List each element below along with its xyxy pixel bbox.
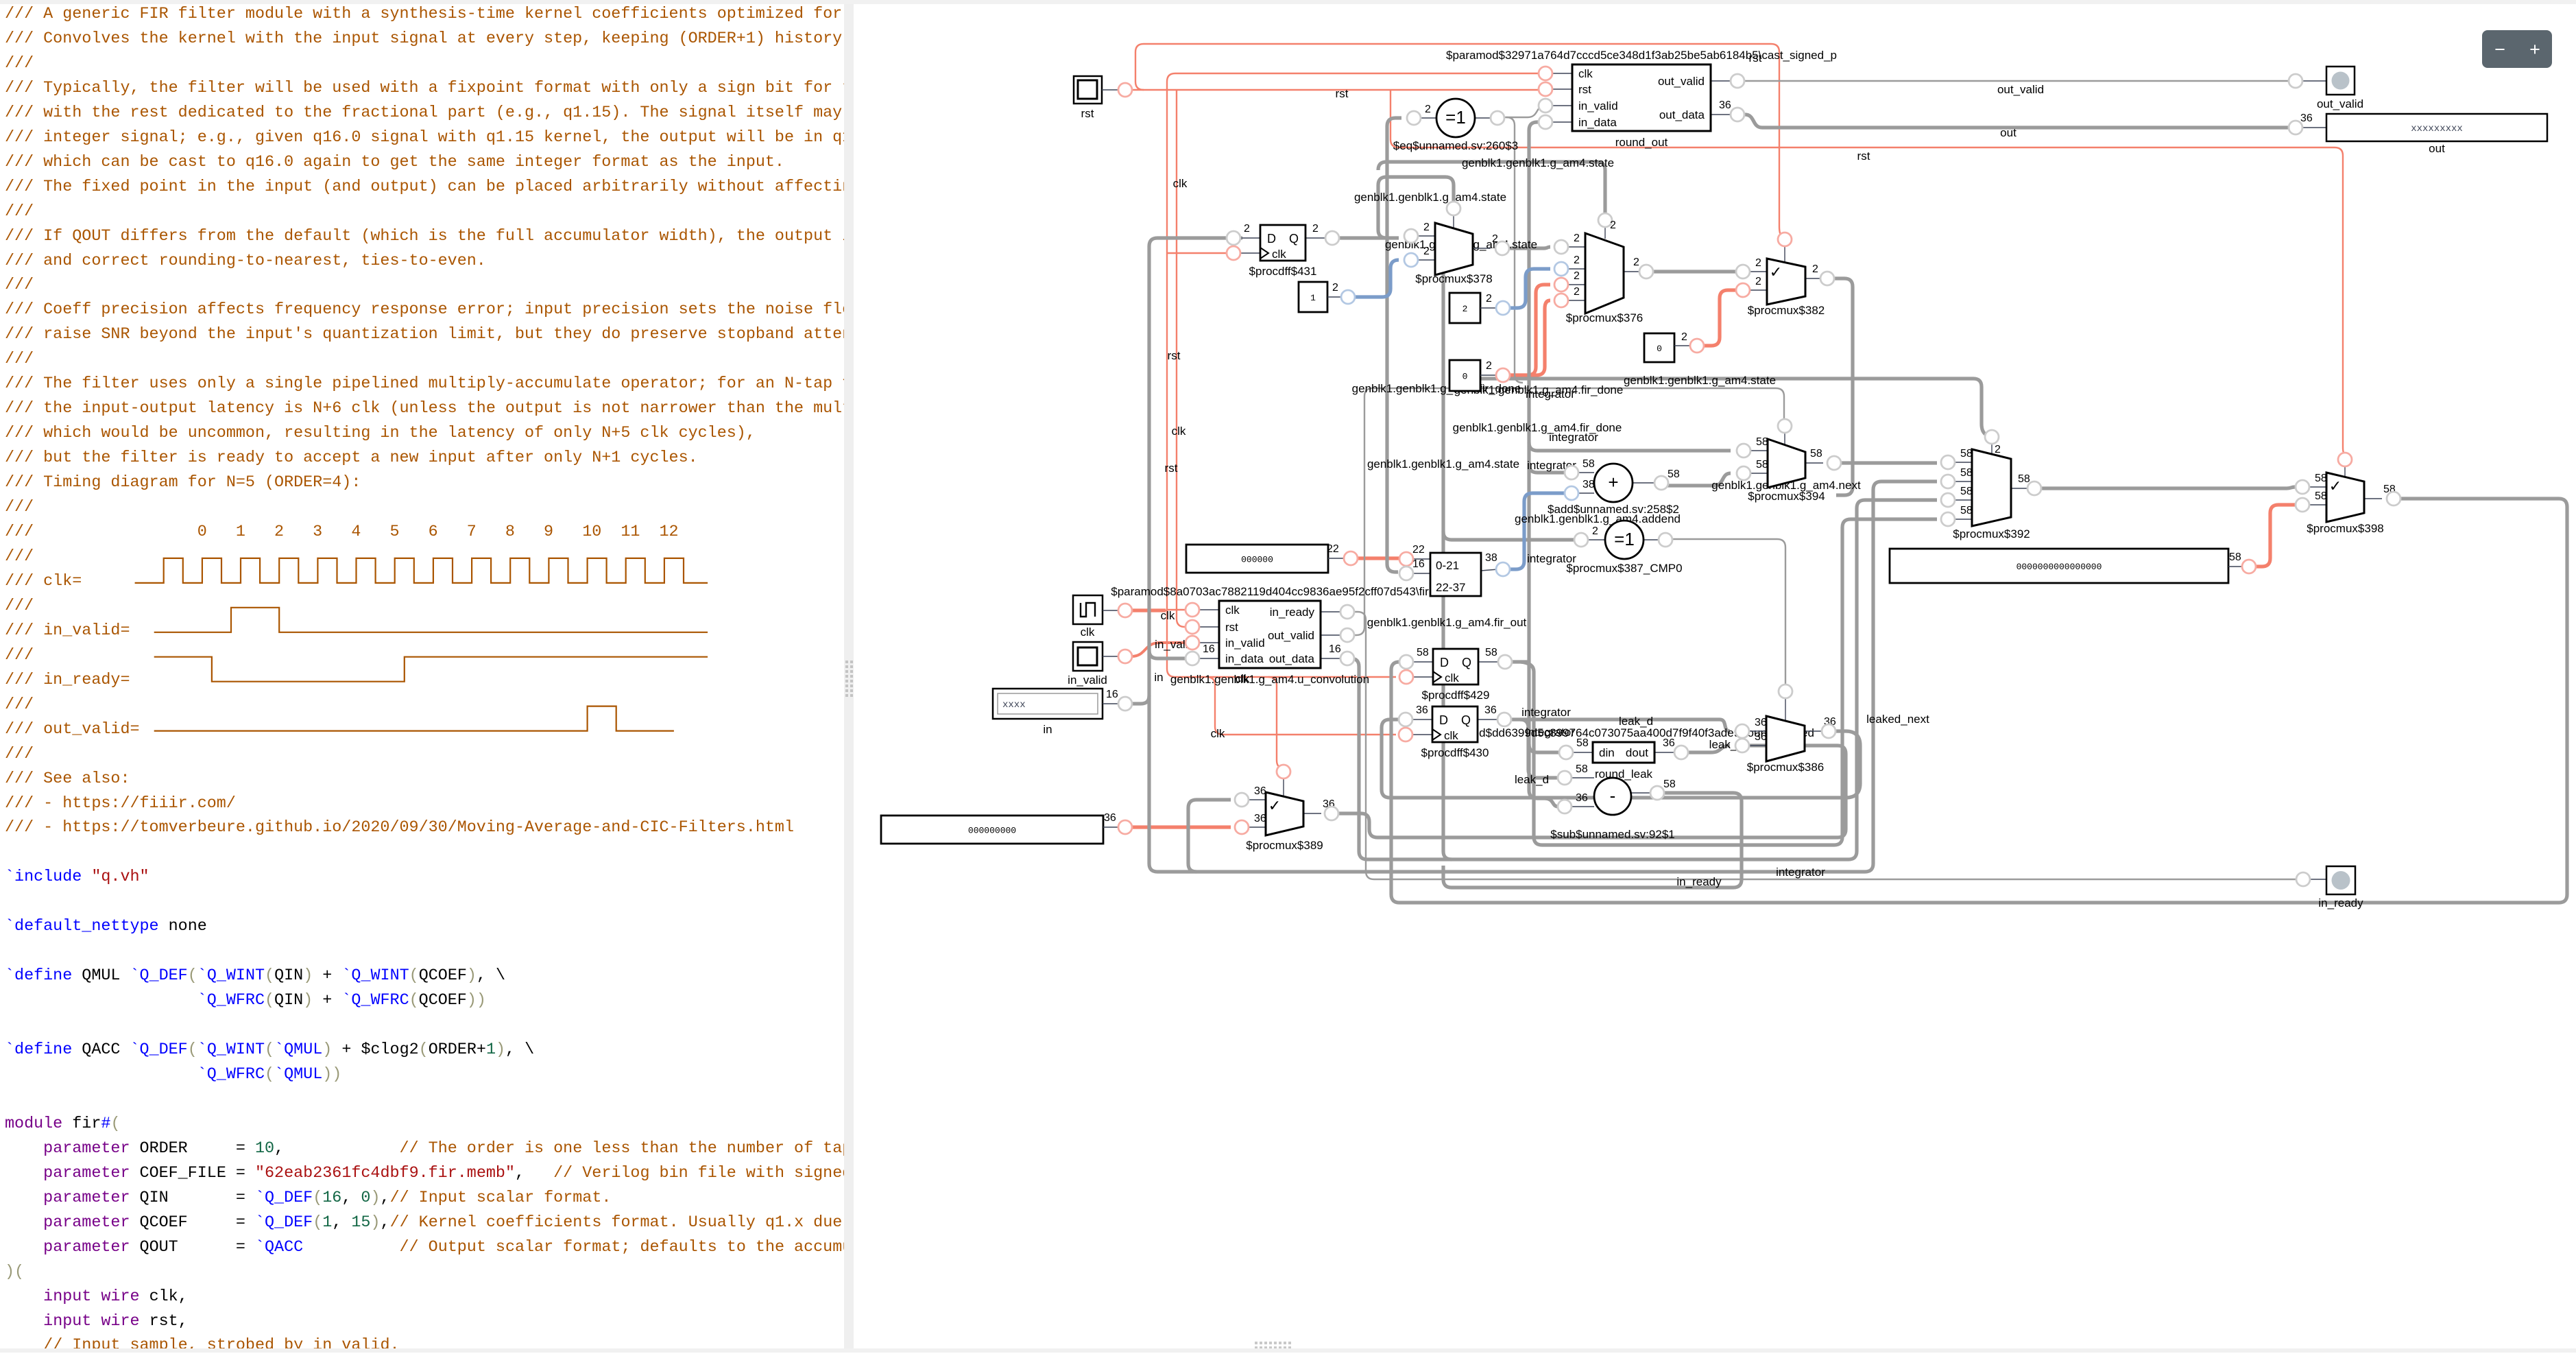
svg-text:$procmux$378: $procmux$378: [1415, 272, 1492, 285]
wire leak: $procmux$389.out loop to $procmux$386.in2 junction: [1338, 746, 1846, 837]
svg-text:38: 38: [1485, 552, 1497, 564]
svg-text:integrator: integrator: [1526, 388, 1575, 401]
svg-text:out_valid: out_valid: [1997, 83, 2044, 96]
wire leak_: round_leak.dout to $procmux$386.in2: [1682, 746, 1730, 752]
svg-text:58: 58: [1582, 458, 1595, 470]
svg-text:out_valid: out_valid: [1268, 629, 1314, 642]
svg-text:36: 36: [1416, 704, 1428, 716]
subcircuit round_leak U2: [1433, 726, 1814, 781]
svg-text:2: 2: [1423, 246, 1430, 257]
svg-text:clk: clk: [1211, 727, 1225, 740]
constant 000000 (22-bit): [1186, 543, 1358, 573]
svg-text:=1: =1: [1445, 107, 1466, 128]
svg-text:clk: clk: [1272, 248, 1286, 261]
wire clk to $procdff$431.clk: [1167, 252, 1230, 254]
wire integrator loop to $procmux$392.in4: [1521, 519, 1937, 845]
svg-text:rst: rst: [1165, 462, 1178, 475]
svg-text:$procmux$376: $procmux$376: [1566, 311, 1643, 324]
svg-text:0: 0: [1657, 344, 1662, 354]
wire constant 2 to $procmux$376.in2: [1509, 269, 1550, 308]
svg-text:xxxxxxxxx: xxxxxxxxx: [2411, 123, 2463, 134]
svg-text:0000000000000000: 0000000000000000: [2017, 562, 2102, 572]
svg-text:2: 2: [1312, 223, 1319, 235]
constant 1 (to $procmux$378): [1299, 282, 1355, 312]
svg-text:$add$unnamed.sv:258$2: $add$unnamed.sv:258$2: [1548, 503, 1679, 516]
gate $eq$unnamed.sv:260$3: [1393, 99, 1518, 152]
svg-text:$paramod$32971a764d7cccd5ce348: $paramod$32971a764d7cccd5ce348d1f3ab25be…: [1446, 49, 1837, 62]
svg-text:36: 36: [1719, 99, 1731, 111]
wire in_ready from fir to output: [1349, 612, 2297, 879]
gate $add$unnamed.sv:258$2: [1548, 458, 1680, 516]
constant 000000000 (36-bit): [881, 812, 1132, 844]
wire state to $eq input and splitter.in2: [1387, 118, 1401, 572]
svg-text:✓: ✓: [1268, 797, 1281, 814]
wire constant 0 to $procmux$376.in3: [1509, 285, 1550, 375]
mux $procmux$382: [1736, 233, 1834, 317]
svg-text:22-37: 22-37: [1436, 581, 1465, 594]
output port in_ready: [2296, 866, 2363, 909]
svg-text:2: 2: [1423, 222, 1430, 233]
svg-text:rst: rst: [1168, 349, 1181, 362]
svg-text:58: 58: [2315, 490, 2327, 502]
svg-text:$procmux$392: $procmux$392: [1953, 527, 2030, 540]
wire constant 0 to $procmux$382.in2: [1703, 290, 1737, 346]
svg-text:16: 16: [1329, 643, 1341, 655]
wire integrator trunk: round_out.in_data down to subtractor: [1529, 122, 1558, 807]
svg-text:=1: =1: [1614, 529, 1635, 549]
svg-text:out: out: [2429, 142, 2445, 155]
svg-text:36: 36: [1576, 792, 1588, 804]
svg-text:out_data: out_data: [1659, 108, 1705, 121]
svg-text:1: 1: [1310, 293, 1316, 303]
svg-text:din: din: [1599, 746, 1615, 759]
svg-text:rst: rst: [1081, 107, 1094, 120]
wire clk to fir.clk: [1167, 609, 1190, 610]
svg-text:58: 58: [1960, 486, 1973, 497]
svg-text:genblk1.genblk1.g_am4.state: genblk1.genblk1.g_am4.state: [1624, 374, 1776, 387]
svg-text:58: 58: [1668, 468, 1680, 480]
svg-text:✓: ✓: [2329, 477, 2342, 495]
svg-text:$procmux$382: $procmux$382: [1748, 304, 1825, 317]
svg-text:36: 36: [1755, 731, 1767, 743]
wire constant 000000000 to $procmux$389.in2: [1131, 825, 1231, 829]
svg-text:000000: 000000: [1241, 555, 1273, 565]
output port out: [2289, 112, 2547, 155]
svg-text:2: 2: [1332, 282, 1338, 294]
gate $sub$unnamed.sv:92$1: [1550, 763, 1676, 841]
constant 0 (to $procmux$376): [1449, 360, 1510, 391]
svg-text:−: −: [2494, 39, 2505, 60]
svg-text:$paramod$8a0703ac7882119d404cc: $paramod$8a0703ac7882119d404cc9836ae95f2…: [1111, 585, 1429, 598]
svg-text:out_valid: out_valid: [2317, 97, 2363, 110]
svg-text:✓: ✓: [1770, 263, 1782, 281]
wire state trunk down mid canvas: [1452, 379, 1986, 435]
svg-text:38: 38: [1582, 479, 1595, 490]
svg-text:$procmux$387_CMP0: $procmux$387_CMP0: [1566, 562, 1682, 575]
svg-text:round_leak: round_leak: [1595, 768, 1653, 781]
svg-text:in_data: in_data: [1578, 116, 1617, 129]
svg-text:58: 58: [2315, 473, 2327, 484]
svg-text:leak_: leak_: [1709, 738, 1737, 751]
svg-text:rst: rst: [1857, 150, 1870, 163]
svg-text:58: 58: [1485, 647, 1497, 658]
svg-text:36: 36: [1254, 813, 1266, 824]
mux $procmux$389: [1235, 765, 1338, 852]
svg-text:58: 58: [1576, 763, 1588, 775]
wire constant 000000 to splitter: [1357, 556, 1400, 560]
svg-text:58: 58: [1663, 778, 1676, 790]
svg-text:integrator: integrator: [1521, 706, 1571, 719]
wire $procmux$378.out to $procmux$376.in1: [1508, 247, 1550, 248]
wire integrator branch to adder in1: [1529, 464, 1565, 473]
mux $procmux$376: [1554, 213, 1653, 324]
svg-text:0: 0: [1462, 372, 1468, 382]
wire $procmux$394.out to $procmux$392.in1: [1840, 461, 1937, 464]
svg-text:$eq$unnamed.sv:260$3: $eq$unnamed.sv:260$3: [1393, 139, 1518, 152]
mux $procmux$378: [1404, 202, 1509, 285]
svg-text:in_valid: in_valid: [1578, 99, 1618, 112]
svg-text:58: 58: [1960, 448, 1973, 460]
svg-text:2: 2: [1486, 360, 1492, 372]
wire clk trunk to round_out.clk: [1131, 608, 1166, 612]
svg-text:rst: rst: [1578, 83, 1591, 96]
svg-text:genblk1.genblk1.g_am4.state: genblk1.genblk1.g_am4.state: [1354, 191, 1506, 204]
svg-text:clk: clk: [1578, 67, 1593, 80]
svg-text:22: 22: [1327, 543, 1339, 555]
wire rst branch to $procmux$382 select: [1135, 44, 1782, 237]
mux $procmux$386: [1735, 685, 1836, 774]
svg-text:$procmux$394: $procmux$394: [1748, 490, 1825, 503]
svg-text:58: 58: [2018, 473, 2030, 485]
svg-text:36: 36: [1254, 785, 1266, 797]
wire $procmux$387_CMP0.out to $procmux$386 select: [1672, 539, 1785, 685]
wire fir_done branch down from $eq output: [1506, 117, 1523, 383]
svg-text:in_ready: in_ready: [1676, 875, 1722, 888]
svg-text:58: 58: [1417, 647, 1429, 658]
wire state2: $procmux$382.out to $procmux$394 select: [1833, 278, 1853, 495]
svg-text:clk: clk: [1445, 671, 1459, 685]
wire out bus to output: [1738, 115, 2289, 128]
scrollbar drag dots bottom: [1255, 1342, 1291, 1349]
svg-text:in_data: in_data: [1225, 652, 1264, 665]
svg-text:$procdff$429: $procdff$429: [1422, 689, 1490, 702]
svg-text:+: +: [1608, 472, 1618, 492]
svg-text:36: 36: [1484, 704, 1497, 716]
svg-text:genblk1.genblk1.g_am4.state: genblk1.genblk1.g_am4.state: [1462, 156, 1614, 169]
wire rst vertical to fir.rst: [1177, 90, 1190, 627]
gate $procmux$387_CMP0: [1566, 521, 1682, 575]
svg-text:xxxx: xxxx: [1002, 700, 1026, 711]
wire $procmux$392.out to $procmux$398.in1: [2041, 487, 2295, 488]
svg-text:2: 2: [1574, 286, 1580, 298]
svg-text:clk: clk: [1172, 425, 1186, 438]
svg-text:58: 58: [2229, 551, 2241, 563]
svg-text:2: 2: [1574, 254, 1580, 266]
constant 58-bit zero: [1890, 549, 2256, 583]
svg-text:clk: clk: [1081, 626, 1095, 639]
svg-text:2: 2: [1244, 223, 1250, 235]
mux $procmux$392: [1941, 430, 2041, 540]
svg-text:2: 2: [1812, 263, 1818, 275]
svg-text:36: 36: [2300, 112, 2313, 124]
svg-text:clk: clk: [1173, 177, 1188, 190]
svg-text:in: in: [1043, 723, 1052, 736]
svg-text:+: +: [2529, 39, 2540, 60]
svg-text:$sub$unnamed.sv:92$1: $sub$unnamed.sv:92$1: [1550, 828, 1674, 841]
svg-text:D: D: [1267, 232, 1276, 246]
wire fir.out_data loop to $procmux$392.in3: [1349, 500, 1937, 859]
wire in trunk loop to $procmux$392.in2: [1149, 238, 1937, 872]
svg-text:dout: dout: [1626, 746, 1648, 759]
svg-text:58: 58: [1756, 459, 1768, 471]
svg-text:integrator: integrator: [1549, 431, 1598, 444]
svg-text:36: 36: [1755, 717, 1767, 728]
flip-flop $procdff$430: [1399, 704, 1511, 759]
wire clk to $procmux$389 select: [1268, 677, 1279, 767]
svg-text:2: 2: [1633, 257, 1639, 268]
svg-text:Q: Q: [1462, 656, 1471, 669]
constant 2 (to $procmux$376): [1449, 293, 1510, 323]
svg-text:2: 2: [1681, 331, 1687, 343]
svg-text:2: 2: [1592, 525, 1598, 537]
wire rst branch to $procmux$398 select: [1391, 90, 2344, 453]
output port out_valid: [2289, 67, 2363, 110]
svg-text:58: 58: [1960, 467, 1973, 479]
mux $procmux$398: [2296, 453, 2400, 535]
input port in_valid: [1068, 642, 1132, 687]
wire leaked_next: $procmux$386 out to $procdff$430.D: [1382, 719, 1860, 798]
wire fir_done to $procmux$376.in4: [1509, 300, 1550, 375]
svg-text:clk: clk: [1161, 609, 1175, 622]
wire $procmux$389.in1 feed: [1188, 800, 1231, 872]
svg-text:$procmux$389: $procmux$389: [1246, 839, 1323, 852]
flip-flop $procdff$429: [1399, 647, 1512, 702]
svg-text:2: 2: [1462, 304, 1468, 314]
wire $procdff$429.Q joins integrator trunk: [1508, 660, 1529, 663]
wire rst to round_out.rst: [1131, 89, 1544, 91]
svg-text:2: 2: [1425, 104, 1431, 115]
wire state2 run across to $procmux$392 select: [1443, 271, 1452, 859]
svg-text:$procdff$430: $procdff$430: [1421, 746, 1489, 759]
constant 0 (to $procmux$382): [1644, 331, 1704, 362]
svg-text:rst: rst: [1336, 87, 1349, 100]
wire long constant to $procmux$398.in2: [2255, 505, 2295, 567]
svg-text:D: D: [1440, 656, 1449, 669]
input port rst: [1074, 76, 1132, 120]
svg-text:2: 2: [1574, 270, 1580, 282]
svg-text:2: 2: [1995, 444, 2001, 455]
wire adder out to $procmux$394.in2: [1668, 473, 1731, 486]
svg-text:16: 16: [1412, 558, 1425, 570]
svg-text:16: 16: [1106, 689, 1118, 700]
wire clk run to $procdff$430.clk: [1207, 677, 1396, 735]
svg-text:in_valid: in_valid: [1225, 637, 1265, 650]
wire state to $procmux$376 select: [1378, 162, 1605, 214]
wire in trunk to fir.in_data: [1149, 650, 1190, 658]
svg-text:58: 58: [1756, 436, 1768, 448]
input port in: [993, 689, 1132, 736]
wire in_valid to fir.in_valid: [1131, 643, 1190, 656]
svg-text:0-21: 0-21: [1436, 559, 1459, 572]
svg-text:out_data: out_data: [1269, 652, 1315, 665]
svg-text:58: 58: [1960, 505, 1973, 516]
svg-text:000000000: 000000000: [968, 826, 1016, 836]
svg-text:2: 2: [1610, 219, 1616, 231]
wire out: $procmux$398 output loop to $procdff$429.D: [1391, 499, 2567, 903]
svg-text:in_ready: in_ready: [2318, 896, 2363, 909]
svg-text:leaked_next: leaked_next: [1866, 713, 1929, 726]
svg-text:D: D: [1439, 713, 1448, 727]
svg-text:clk: clk: [1225, 604, 1240, 617]
wire fir_done: $eq output to round_out.in_valid: [1503, 106, 1544, 117]
svg-text:16: 16: [1203, 643, 1215, 655]
zoom buttons: [2482, 30, 2552, 68]
svg-text:2: 2: [1755, 276, 1761, 287]
wire $procmux$376.out to $procmux$382.in1: [1652, 270, 1737, 273]
wire state loop to $procmux$378 select: [1378, 177, 1454, 238]
svg-text:integrator: integrator: [1776, 866, 1825, 879]
svg-text:-: -: [1610, 785, 1616, 806]
svg-text:2: 2: [1486, 293, 1492, 305]
wire leak_d branch to subtractor.in1: [1520, 719, 1558, 778]
input port clk: [1073, 595, 1132, 639]
svg-text:leak_d: leak_d: [1515, 773, 1549, 786]
svg-text:in: in: [1154, 671, 1163, 684]
flip-flop $procdff$431: [1227, 223, 1339, 278]
subcircuit round_out U1: [1446, 49, 1837, 149]
svg-text:genblk1.genblk1.g_am4.u_convol: genblk1.genblk1.g_am4.u_convolution: [1170, 673, 1369, 686]
wire splitter out to adder.in2: [1509, 493, 1565, 569]
svg-text:out: out: [2000, 126, 2017, 139]
svg-text:in_ready: in_ready: [1270, 606, 1315, 619]
svg-text:22: 22: [1412, 544, 1425, 556]
wire in input joins trunk: [1131, 695, 1149, 704]
wire integrator branch to round_leak.din: [1529, 744, 1563, 752]
wire leaked: subtractor out down left: [1443, 793, 1742, 888]
wire state: $procdff$431.Q to $procmux$378.in1: [1336, 236, 1399, 239]
wire integrator branch to $procmux$394.in1: [1529, 442, 1731, 451]
svg-text:genblk1.genblk1.g_am4.state: genblk1.genblk1.g_am4.state: [1367, 457, 1519, 471]
wire leak_d: $procdff$430.Q to $procmux$386.in1: [1508, 719, 1730, 731]
svg-text:out_valid: out_valid: [1658, 75, 1705, 88]
svg-text:$procmux$386: $procmux$386: [1747, 761, 1824, 774]
wire constant 1 to $procmux$378.in2: [1354, 260, 1399, 297]
svg-text:2: 2: [1574, 233, 1580, 244]
wire out_valid to output: [1738, 80, 2289, 82]
wire fir_done: fir.out_valid to $procmux$394 select: [1349, 388, 1784, 635]
svg-text:in_valid: in_valid: [1068, 674, 1107, 687]
svg-text:$procmux$398: $procmux$398: [2307, 522, 2383, 535]
svg-text:58: 58: [1810, 448, 1822, 460]
svg-text:36: 36: [1104, 812, 1116, 824]
svg-text:rst: rst: [1225, 621, 1238, 634]
splitter 0-21 / 22-37: [1399, 544, 1510, 596]
svg-text:genblk1.genblk1.g_am4.fir_out: genblk1.genblk1.g_am4.fir_out: [1367, 616, 1527, 629]
svg-text:Q: Q: [1461, 713, 1471, 727]
svg-text:2: 2: [1755, 257, 1761, 269]
subcircuit fir u_convolution: [1111, 585, 1429, 686]
wire state branch to $procmux$387_CMP0 input: [1443, 532, 1575, 540]
svg-text:round_out: round_out: [1615, 136, 1668, 149]
svg-text:Q: Q: [1289, 232, 1299, 246]
wire clk run to $procdff$429.clk: [1167, 610, 1396, 677]
svg-text:$procdff$431: $procdff$431: [1249, 265, 1317, 278]
mux $procmux$394: [1737, 419, 1841, 503]
svg-text:clk: clk: [1444, 729, 1458, 742]
